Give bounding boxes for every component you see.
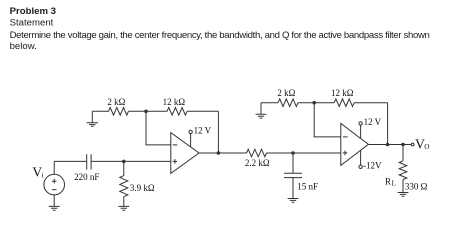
svg-text:Determine the voltage gain, th: Determine the voltage gain, the center f… bbox=[10, 30, 430, 41]
wire N5 to inverting input U2 bbox=[314, 103, 341, 137]
svg-text:2.2 kΩ: 2.2 kΩ bbox=[245, 158, 270, 168]
wire stage2 rail mid bbox=[298, 102, 334, 104]
voltage source Vi bbox=[44, 174, 65, 195]
node N1 junction dot bbox=[144, 110, 148, 114]
svg-text:-12V: -12V bbox=[363, 161, 382, 171]
U2 plus sign bbox=[343, 151, 348, 156]
node N6 junction dot bbox=[386, 143, 390, 147]
terminal Vo bbox=[411, 143, 414, 146]
ground G3 (under 3.9k) bbox=[118, 206, 129, 210]
wire stage1 rail mid bbox=[129, 110, 168, 112]
wire RL to ground bbox=[402, 180, 404, 193]
svg-text:L: L bbox=[392, 181, 396, 188]
wire N4 down to cap bbox=[292, 153, 294, 173]
node N3 junction dot bbox=[217, 151, 221, 155]
wire U1 output bbox=[199, 152, 247, 154]
resistor 2 kOhm (stage2) bbox=[278, 99, 298, 107]
ground G2 (under Vi) bbox=[49, 206, 60, 210]
svg-text:2 kΩ: 2 kΩ bbox=[107, 97, 125, 107]
ground G6 (under RL) bbox=[398, 193, 409, 197]
svg-text:R: R bbox=[385, 177, 391, 187]
svg-text:below.: below. bbox=[10, 41, 37, 52]
node N5 junction dot bbox=[312, 101, 316, 105]
ground G5 (under 15nF) bbox=[288, 199, 299, 203]
U1 minus sign bbox=[173, 144, 178, 146]
U2 supply pin 12V bbox=[359, 122, 362, 125]
resistor RL 330 Ohm bbox=[399, 161, 407, 180]
wire N2 down bbox=[123, 161, 125, 175]
node N2 junction dot bbox=[122, 160, 126, 164]
svg-text:3.9 kΩ: 3.9 kΩ bbox=[130, 183, 155, 193]
resistor 12 kOhm (stage2) bbox=[334, 99, 354, 107]
wire stage2 rail right bbox=[354, 102, 387, 104]
svg-text:220 nF: 220 nF bbox=[74, 172, 99, 182]
wire stage2 rail left bbox=[261, 102, 278, 104]
node N7 junction dot bbox=[401, 143, 405, 147]
resistor 3.9 kOhm bbox=[120, 176, 128, 197]
wire stage1 rail right bbox=[187, 110, 218, 112]
wire 3.9k to ground bbox=[123, 197, 125, 207]
wire U2 output bbox=[368, 144, 411, 146]
svg-text:O: O bbox=[424, 142, 429, 151]
wire stage1 feedback down bbox=[217, 111, 219, 153]
wire 2.2k to plus input U2 bbox=[267, 152, 341, 154]
svg-text:12 kΩ: 12 kΩ bbox=[163, 97, 186, 107]
wire stage1 rail left bbox=[92, 110, 108, 112]
wire stage2 feedback down bbox=[387, 103, 389, 145]
svg-text:i: i bbox=[42, 170, 44, 179]
U1 supply pin 12V bbox=[189, 130, 192, 133]
svg-text:15 nF: 15 nF bbox=[297, 182, 318, 192]
wire N7 down to RL bbox=[402, 145, 404, 161]
wire cap to plus input bbox=[91, 160, 171, 162]
svg-text:2 kΩ: 2 kΩ bbox=[277, 88, 295, 98]
svg-text:12 V: 12 V bbox=[364, 117, 382, 127]
capacitor 15 nF bbox=[284, 173, 302, 177]
ground G1 (stage1 feedback rail) bbox=[91, 111, 93, 122]
svg-text:330 Ω: 330 Ω bbox=[405, 182, 428, 192]
resistor 12 kOhm (stage1) bbox=[167, 108, 187, 116]
svg-text:12 kΩ: 12 kΩ bbox=[331, 88, 354, 98]
resistor 2 kOhm (stage1) bbox=[109, 108, 129, 116]
wire Vi top bbox=[53, 161, 55, 174]
svg-text:12 V: 12 V bbox=[194, 126, 212, 136]
U2 supply pin -12V bbox=[359, 165, 362, 168]
U2 minus sign bbox=[343, 136, 348, 138]
svg-text:Statement: Statement bbox=[10, 17, 54, 28]
wire input rail to cap bbox=[54, 160, 86, 162]
U1 plus sign bbox=[173, 159, 178, 164]
op-amp U2 bbox=[341, 123, 369, 165]
resistor 2.2 kOhm bbox=[247, 149, 267, 157]
wire Vi bottom bbox=[53, 195, 55, 206]
capacitor 220 nF bbox=[87, 154, 91, 169]
node N4 junction dot bbox=[291, 151, 295, 155]
wire cap to ground bbox=[292, 178, 294, 199]
wire N1 to inverting input bbox=[146, 111, 171, 145]
ground G4 (stage2 feedback rail) bbox=[260, 103, 262, 115]
svg-text:Problem 3: Problem 3 bbox=[10, 6, 56, 17]
op-amp U1 bbox=[171, 133, 199, 174]
